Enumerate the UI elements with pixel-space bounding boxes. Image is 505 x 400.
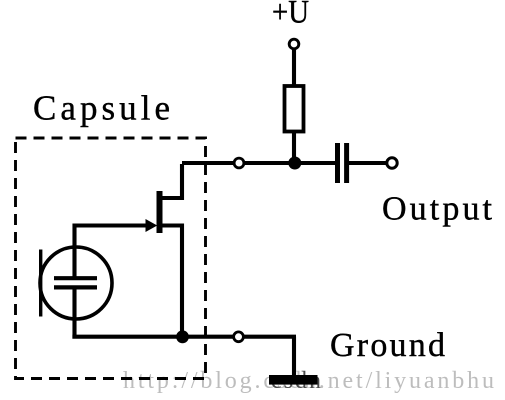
wire down to ground: [292, 337, 296, 377]
terminal circle output: [387, 158, 397, 168]
capsule membrane line: [39, 250, 42, 317]
terminal circle +U: [289, 39, 299, 49]
wire bottom rail: [72, 335, 296, 339]
wire resistor to node: [292, 130, 296, 163]
ground symbol: [269, 375, 318, 385]
junction dot source/bottom rail: [176, 330, 189, 343]
wire gate vertical to capsule: [72, 224, 76, 278]
svg-text:Output: Output: [382, 191, 493, 228]
wire source pin: [162, 226, 182, 339]
terminal circle left of node: [234, 158, 244, 168]
transistor Q1 channel bar: [157, 191, 163, 233]
gate arrowhead: [146, 219, 158, 232]
capsule dashed box: [16, 138, 206, 379]
wire gate horizontal: [75, 223, 148, 227]
svg-text:Capsule: Capsule: [33, 89, 170, 128]
node junction dot: [288, 157, 301, 170]
wire drain corner to capacitor: [182, 161, 336, 165]
capsule capacitor bottom plate: [54, 285, 97, 289]
wire capacitor to output terminal: [348, 161, 388, 165]
wire capsule bottom vertical: [72, 287, 76, 338]
capsule circle: [40, 247, 112, 319]
wire drain vertical: [162, 164, 182, 198]
capacitor C1 plate left: [335, 143, 340, 183]
terminal circle ground rail: [234, 332, 244, 342]
capacitor C1 plate right: [344, 143, 349, 183]
resistor R1: [285, 86, 304, 132]
svg-text:+U: +U: [272, 0, 309, 31]
wire +U terminal to resistor: [292, 49, 296, 88]
capsule capacitor top plate: [54, 276, 97, 280]
